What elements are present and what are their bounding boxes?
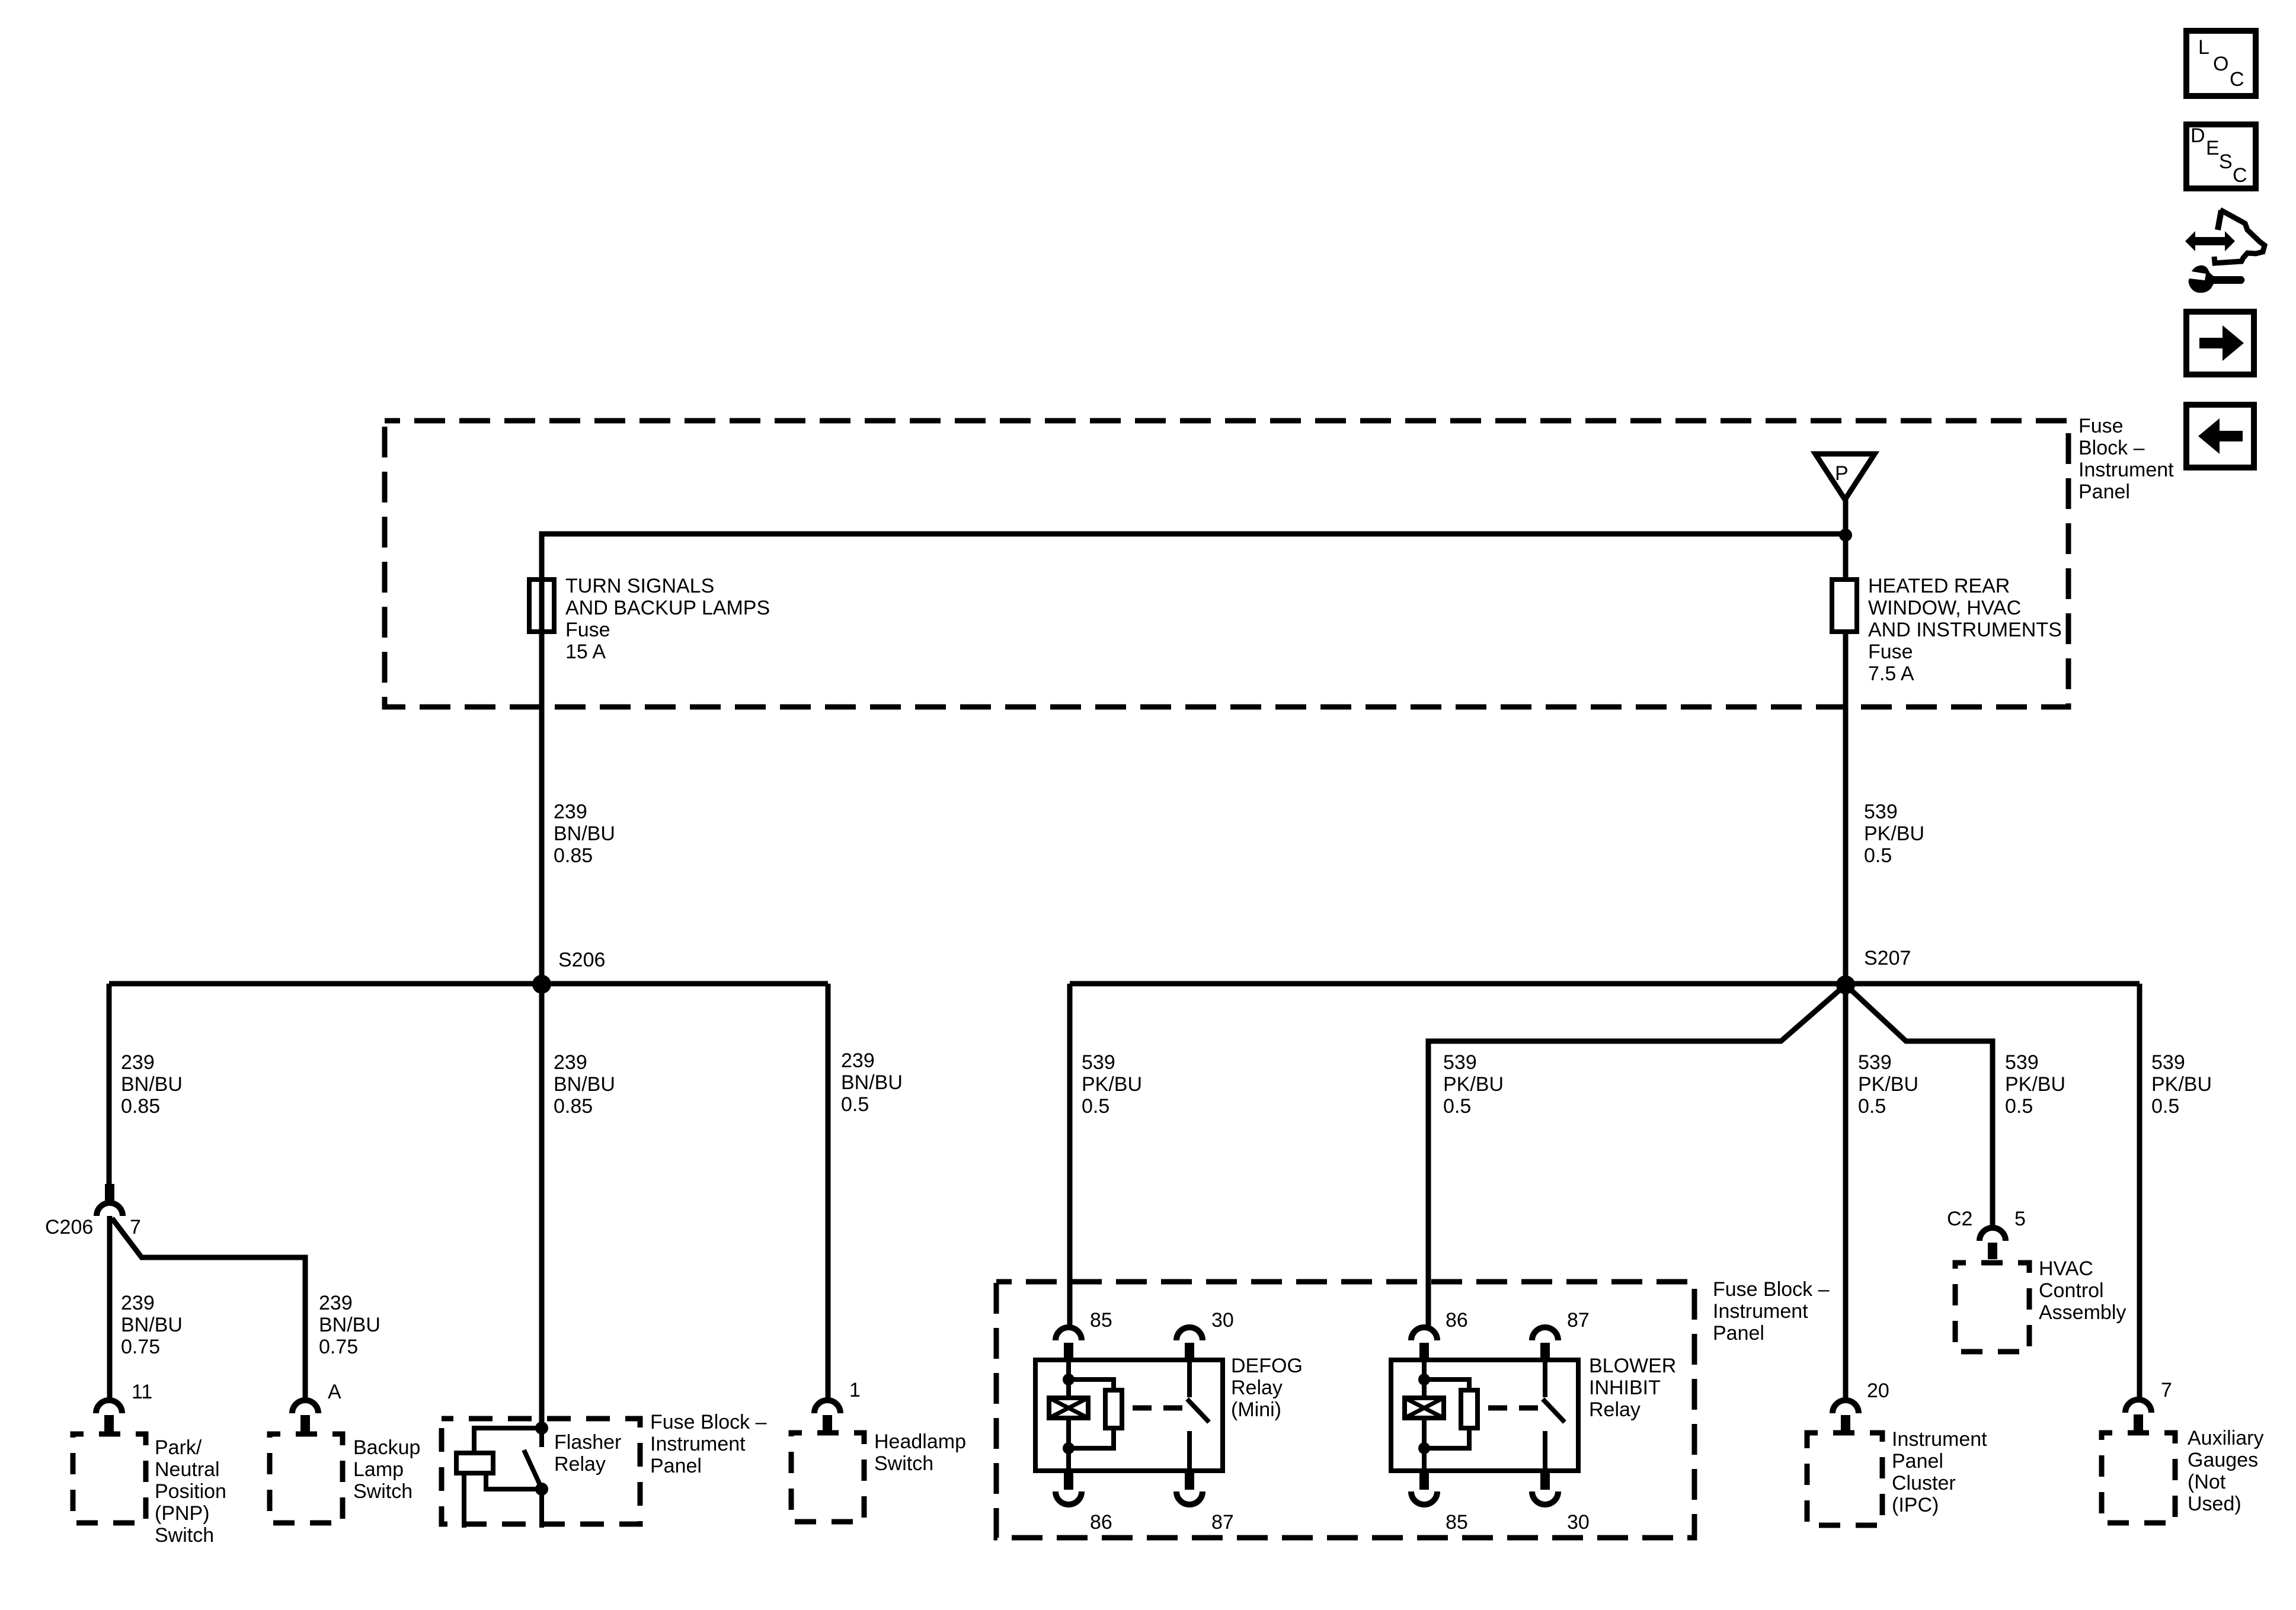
svg-text:Cluster: Cluster (1892, 1472, 1956, 1494)
svg-text:PK/BU: PK/BU (2151, 1073, 2212, 1096)
svg-text:WINDOW, HVAC: WINDOW, HVAC (1868, 597, 2021, 619)
svg-text:P: P (1835, 462, 1849, 485)
pin 85 terminal (bottom) (1419, 1472, 1429, 1490)
wire: top horizontal from turn-signal fuse to power junction (542, 534, 1846, 632)
svg-text:0.85: 0.85 (121, 1095, 160, 1118)
flasher relay internals (456, 1422, 548, 1528)
svg-text:Switch: Switch (353, 1480, 412, 1503)
coil branch wire (1422, 1360, 1427, 1471)
svg-text:Switch: Switch (155, 1524, 214, 1547)
svg-text:Instrument: Instrument (1892, 1428, 1987, 1451)
svg-text:Park/: Park/ (155, 1436, 202, 1459)
svg-text:HVAC: HVAC (2039, 1257, 2093, 1280)
icon: DESC box (2186, 124, 2256, 188)
flasher coil (456, 1453, 493, 1473)
park/neutral position switch box (73, 1434, 226, 1547)
svg-text:INHIBIT: INHIBIT (1589, 1377, 1661, 1399)
svg-text:Block –: Block – (2078, 437, 2145, 459)
svg-text:15 A: 15 A (565, 641, 606, 663)
svg-text:PK/BU: PK/BU (1858, 1073, 1918, 1096)
pin 85 terminal (1056, 1327, 1082, 1340)
wire: from P down to heated fuse (1843, 500, 1849, 580)
switch lower contact (1187, 1431, 1192, 1472)
wire: 239 BN/BU 0.75 C206 to backup lamp switch pin A (112, 1218, 305, 1400)
pin 30 terminal (1176, 1327, 1203, 1340)
resistor (1461, 1390, 1478, 1428)
node: coil bottom junction (1063, 1442, 1075, 1454)
svg-text:0.5: 0.5 (1082, 1095, 1109, 1118)
svg-text:D: D (2191, 124, 2205, 147)
switch fixed contact (1187, 1360, 1192, 1397)
node S207 (1836, 975, 1855, 994)
svg-text:Switch: Switch (874, 1452, 933, 1475)
wire: S206 down-left branch 239 BN/BU 0.85 to C206 (107, 984, 112, 1184)
node: flasher top junction (535, 1422, 548, 1435)
coil (crossed box) (1405, 1398, 1444, 1418)
svg-text:(Mini): (Mini) (1231, 1398, 1281, 1421)
svg-text:Relay: Relay (554, 1453, 606, 1475)
node: flasher lower junction (535, 1483, 548, 1496)
svg-text:7: 7 (2161, 1379, 2172, 1401)
mechanical link dashes (1133, 1406, 1182, 1411)
svg-text:Used): Used) (2188, 1493, 2241, 1515)
svg-text:Relay: Relay (1589, 1398, 1641, 1421)
pin 30 terminal (bottom) (1540, 1472, 1550, 1490)
svg-text:Headlamp: Headlamp (874, 1430, 966, 1453)
svg-text:Flasher: Flasher (554, 1431, 621, 1454)
icon: arrow right box (2186, 312, 2254, 375)
connector C206 pin 7 (in-line) (45, 1184, 141, 1238)
switch blade (1187, 1399, 1209, 1422)
pin 87 terminal (1532, 1327, 1558, 1340)
svg-text:DEFOG: DEFOG (1231, 1355, 1303, 1377)
fuse block - instrument panel (top dashed box) (385, 415, 2174, 707)
svg-text:(Not: (Not (2188, 1471, 2226, 1493)
svg-text:BN/BU: BN/BU (121, 1073, 183, 1096)
svg-text:BN/BU: BN/BU (319, 1314, 380, 1336)
wire: S206 splice bus (109, 981, 828, 987)
svg-text:11: 11 (132, 1381, 152, 1403)
svg-text:7.5 A: 7.5 A (1868, 662, 1914, 685)
svg-text:(PNP): (PNP) (155, 1502, 210, 1525)
wire: S207 straight down 539 PK/BU 0.5 to IPC pin 20 (1843, 985, 1849, 1400)
svg-text:Panel: Panel (2078, 481, 2130, 503)
fuse: HEATED REAR WINDOW, HVAC AND INSTRUMENTS 7.5 A (1832, 575, 2062, 685)
icon: arrow left box (2186, 405, 2254, 468)
svg-text:Fuse: Fuse (1868, 641, 1913, 663)
BLOWER INHIBIT relay (1391, 1309, 1676, 1534)
wire: S207 diagonal branch 539 PK/BU 0.5 to blower inhibit relay pin 86 (1428, 985, 1846, 1327)
svg-text:0.5: 0.5 (1864, 844, 1892, 867)
svg-text:Fuse: Fuse (2078, 415, 2124, 437)
svg-text:539: 539 (1864, 801, 1898, 823)
switch lower contact (1543, 1431, 1547, 1472)
svg-text:239: 239 (121, 1051, 155, 1074)
pin 86 terminal (1411, 1327, 1437, 1340)
svg-text:L: L (2198, 36, 2209, 59)
svg-text:(IPC): (IPC) (1892, 1494, 1939, 1516)
relay body (1391, 1360, 1578, 1471)
DEFOG relay (mini) (1035, 1309, 1303, 1534)
svg-text:85: 85 (1090, 1309, 1112, 1331)
wire: S206 center branch 239 BN/BU 0.85 to flasher relay (539, 984, 545, 1428)
svg-text:0.85: 0.85 (554, 844, 593, 867)
svg-text:0.5: 0.5 (1858, 1095, 1886, 1118)
svg-text:S207: S207 (1864, 947, 1911, 969)
svg-text:86: 86 (1090, 1511, 1112, 1534)
power symbol P triangle (1815, 454, 1875, 500)
svg-text:BN/BU: BN/BU (554, 1073, 615, 1096)
svg-text:539: 539 (1858, 1051, 1892, 1074)
svg-text:PK/BU: PK/BU (2005, 1073, 2065, 1096)
node: junction at P feed (1839, 529, 1852, 542)
wire: flasher output lead (539, 1489, 544, 1528)
flasher switch contact (539, 1428, 544, 1447)
svg-text:PK/BU: PK/BU (1082, 1073, 1142, 1096)
svg-text:BN/BU: BN/BU (554, 822, 615, 845)
fuse block - instrument panel (relay dashed box) (996, 1278, 1830, 1538)
svg-text:Assembly: Assembly (2039, 1301, 2126, 1324)
svg-text:0.5: 0.5 (1443, 1095, 1471, 1118)
svg-text:539: 539 (2151, 1051, 2185, 1074)
HVAC control assembly box (1955, 1257, 2126, 1352)
svg-text:C: C (2230, 68, 2244, 91)
switch fixed contact (1543, 1360, 1547, 1397)
icon: harness routing (double arrow, outline, wrench) (2185, 210, 2265, 293)
svg-text:0.5: 0.5 (841, 1093, 869, 1116)
svg-text:C: C (2233, 164, 2247, 187)
flasher switch blade (524, 1450, 542, 1489)
svg-text:BN/BU: BN/BU (841, 1071, 903, 1094)
svg-text:AND INSTRUMENTS: AND INSTRUMENTS (1868, 619, 2062, 641)
svg-text:Gauges: Gauges (2188, 1449, 2258, 1471)
svg-text:0.5: 0.5 (2151, 1095, 2179, 1118)
svg-text:E: E (2206, 137, 2220, 159)
wrench (2189, 265, 2245, 293)
svg-text:Fuse Block –: Fuse Block – (650, 1411, 767, 1433)
svg-text:539: 539 (2005, 1051, 2039, 1074)
svg-text:A: A (328, 1381, 341, 1403)
svg-text:239: 239 (121, 1292, 155, 1314)
wire: 539 PK/BU 0.5 fuse to S207 (1843, 632, 1849, 985)
svg-text:Lamp: Lamp (353, 1458, 404, 1481)
svg-text:Control: Control (2039, 1279, 2104, 1302)
icon: LOC box (2186, 31, 2256, 96)
wire: resistor leads (1069, 1379, 1114, 1448)
auxiliary gauges box (2102, 1427, 2263, 1523)
wire: coil to lower junction (486, 1473, 542, 1489)
svg-text:S: S (2219, 151, 2233, 173)
svg-text:C206: C206 (45, 1216, 93, 1238)
wire: S207 left branch 539 PK/BU 0.5 to defog relay pin 85 (1067, 984, 1073, 1327)
svg-text:30: 30 (1211, 1309, 1234, 1331)
svg-text:Relay: Relay (1231, 1377, 1283, 1399)
wire: coil lower-left lead (462, 1473, 466, 1528)
svg-text:PK/BU: PK/BU (1443, 1073, 1504, 1096)
svg-text:539: 539 (1443, 1051, 1477, 1074)
body outline (2218, 210, 2221, 230)
svg-text:539: 539 (1082, 1051, 1115, 1074)
instrument panel cluster box (1807, 1428, 1987, 1525)
switch blade (1543, 1399, 1565, 1422)
coil branch wire (1066, 1360, 1071, 1471)
svg-text:TURN SIGNALS: TURN SIGNALS (565, 575, 714, 597)
node: coil top junction (1063, 1374, 1075, 1385)
wire: S206 right branch 239 BN/BU 0.5 to headlamp switch (826, 984, 831, 1400)
node: coil top junction (1418, 1374, 1430, 1385)
svg-text:30: 30 (1567, 1511, 1590, 1534)
svg-text:BN/BU: BN/BU (121, 1314, 183, 1336)
svg-text:5: 5 (2014, 1208, 2026, 1230)
svg-text:0.75: 0.75 (121, 1336, 160, 1358)
wire: 239 BN/BU 0.85 fuse to S206 (539, 580, 545, 984)
terminal pin 7 at auxiliary gauges (2125, 1379, 2172, 1432)
wire: S207 splice bus (1070, 981, 2140, 987)
wire: 239 BN/BU 0.75 C206 to PNP switch pin 11 (107, 1216, 113, 1400)
svg-text:Neutral: Neutral (155, 1458, 220, 1481)
fuse: TURN SIGNALS AND BACKUP LAMPS 15 A (529, 575, 770, 663)
terminal pin A at backup lamp switch (292, 1381, 341, 1433)
svg-text:BLOWER: BLOWER (1589, 1355, 1676, 1377)
wire: to flasher coil (474, 1428, 542, 1453)
svg-text:HEATED REAR: HEATED REAR (1868, 575, 2010, 597)
coil (crossed box) (1049, 1398, 1088, 1418)
svg-text:Panel: Panel (1713, 1322, 1764, 1345)
svg-text:Instrument: Instrument (2078, 459, 2174, 481)
svg-text:86: 86 (1446, 1309, 1468, 1331)
wire: S207 right branch 539 PK/BU 0.5 to auxiliary gauges pin 7 (2137, 984, 2142, 1399)
svg-text:1: 1 (849, 1379, 861, 1401)
svg-text:Fuse Block –: Fuse Block – (1713, 1278, 1830, 1301)
svg-text:20: 20 (1867, 1379, 1889, 1402)
svg-text:87: 87 (1567, 1309, 1590, 1331)
svg-text:Position: Position (155, 1480, 226, 1503)
svg-text:87: 87 (1211, 1511, 1234, 1534)
svg-text:7: 7 (130, 1216, 141, 1238)
fuse block label at flasher relay (650, 1411, 767, 1477)
svg-text:PK/BU: PK/BU (1864, 822, 1924, 845)
terminal pin 11 at PNP switch (96, 1381, 152, 1433)
terminal pin 20 at IPC (1833, 1379, 1889, 1433)
svg-text:Fuse: Fuse (565, 619, 610, 641)
double-headed arrow (2185, 231, 2235, 251)
pin 87 terminal (bottom) (1185, 1472, 1194, 1490)
svg-text:Panel: Panel (650, 1455, 702, 1477)
svg-text:239: 239 (841, 1049, 875, 1072)
backup lamp switch box (270, 1434, 420, 1523)
svg-text:239: 239 (554, 801, 587, 823)
svg-text:239: 239 (554, 1051, 587, 1074)
svg-text:AND BACKUP LAMPS: AND BACKUP LAMPS (565, 597, 770, 619)
svg-text:O: O (2213, 53, 2228, 75)
wire: S207 diagonal branch 539 PK/BU 0.5 to HVAC C2 pin 5 (1846, 985, 1993, 1227)
svg-text:0.5: 0.5 (2005, 1095, 2033, 1118)
svg-text:239: 239 (319, 1292, 353, 1314)
svg-text:Instrument: Instrument (1713, 1300, 1808, 1323)
node S206 (532, 975, 551, 994)
connector C2 pin 5 at HVAC (1947, 1208, 2026, 1259)
svg-text:Panel: Panel (1892, 1450, 1943, 1473)
svg-text:0.75: 0.75 (319, 1336, 358, 1358)
flasher relay dashed box (442, 1419, 640, 1524)
svg-text:85: 85 (1446, 1511, 1468, 1534)
terminal pin 1 at headlamp switch (814, 1379, 861, 1433)
pin 86 terminal (bottom) (1064, 1472, 1073, 1490)
svg-text:S206: S206 (558, 949, 605, 971)
wire: resistor leads (1424, 1379, 1469, 1448)
relay body (1035, 1360, 1223, 1471)
svg-text:Instrument: Instrument (650, 1433, 746, 1455)
svg-text:Auxiliary: Auxiliary (2188, 1427, 2263, 1449)
svg-text:Backup: Backup (353, 1436, 420, 1459)
svg-text:0.85: 0.85 (554, 1095, 593, 1118)
mechanical link dashes (1488, 1406, 1538, 1411)
node: coil bottom junction (1418, 1442, 1430, 1454)
svg-text:C2: C2 (1947, 1208, 1972, 1230)
resistor (1105, 1390, 1122, 1428)
headlamp switch box (791, 1430, 966, 1522)
